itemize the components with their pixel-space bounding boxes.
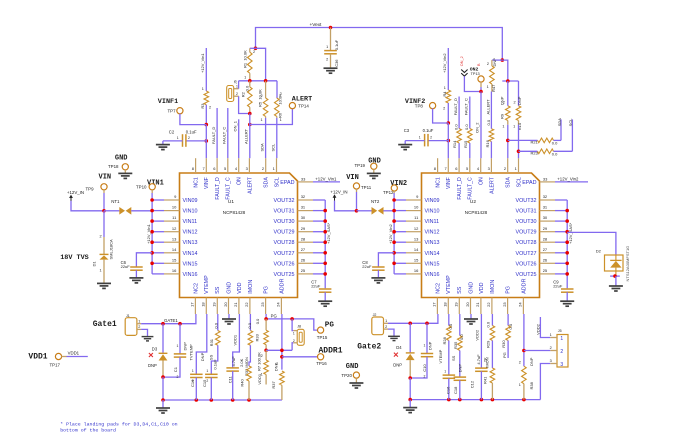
junction J8 tap	[290, 317, 294, 321]
svg-text:R14: R14	[452, 140, 457, 148]
testpoint TP15	[317, 327, 328, 340]
diode D2 pack	[596, 246, 630, 282]
svg-text:J1: J1	[126, 314, 130, 318]
svg-text:2: 2	[385, 325, 387, 329]
svg-text:32: 32	[301, 194, 306, 199]
node VTEMP2 label	[438, 349, 443, 363]
junction R1 bottom	[248, 79, 252, 83]
svg-text:VOUT26: VOUT26	[516, 261, 537, 267]
svg-text:1: 1	[560, 336, 563, 342]
wire FAULT_C2 column	[469, 97, 471, 159]
svg-text:1: 1	[260, 118, 262, 122]
testpoint TP16	[316, 354, 327, 366]
svg-text:22uF: 22uF	[553, 284, 563, 289]
svg-text:R10: R10	[517, 122, 522, 130]
node ON_1 label	[232, 120, 237, 131]
junctions VOUT bus U2	[565, 209, 569, 276]
wire SDA column	[265, 118, 267, 158]
wire NT1 to VIN1 bus	[131, 210, 152, 212]
node FAULT_C label	[222, 127, 227, 144]
junction C2 tap	[205, 139, 209, 143]
ground under C3	[398, 145, 412, 150]
junction node A2	[501, 58, 505, 62]
svg-text:GND: GND	[468, 282, 474, 294]
junction node A	[254, 47, 258, 51]
node VIN label TP9	[86, 174, 112, 192]
ground under J2	[388, 336, 400, 340]
capacitor C16	[443, 370, 456, 400]
svg-text:SDA: SDA	[557, 118, 562, 127]
dnp mark D3	[149, 353, 153, 357]
net-tie NT1	[111, 199, 131, 215]
wire FAULT_D column	[216, 108, 218, 158]
resistor R37	[271, 362, 284, 400]
wire J5 pin2 to ADDR2	[524, 350, 550, 352]
svg-text:NCP81428: NCP81428	[465, 210, 488, 215]
svg-text:27: 27	[301, 247, 306, 252]
svg-text:31: 31	[301, 205, 306, 210]
svg-text:14: 14	[172, 247, 177, 252]
junction R2 bottom	[248, 112, 252, 116]
node Gate1 bold label	[93, 320, 117, 329]
svg-text:VDD1: VDD1	[68, 350, 80, 355]
svg-text:1: 1	[419, 136, 421, 140]
ground under C36	[324, 68, 338, 73]
svg-text:NC1: NC1	[194, 177, 200, 187]
svg-text:R29: R29	[486, 340, 491, 348]
svg-text:0.0: 0.0	[486, 321, 491, 327]
svg-text:29: 29	[301, 226, 306, 231]
svg-text:+12V_SAS*: +12V_SAS*	[568, 222, 573, 244]
junctions VOUT bus U1	[323, 209, 327, 276]
svg-text:0.0: 0.0	[464, 124, 469, 130]
node ADDR1 bold label	[319, 346, 343, 355]
svg-text:VIN09: VIN09	[183, 198, 198, 204]
ground under pin20 U1	[222, 319, 236, 324]
junction TP16 tap	[280, 355, 284, 359]
svg-text:FAULT_C: FAULT_C	[222, 127, 227, 144]
svg-text:0.0: 0.0	[459, 334, 464, 340]
wire J8 pin2 to ADDR	[292, 343, 293, 351]
svg-text:Gate1: Gate1	[93, 320, 117, 329]
svg-text:3: 3	[246, 166, 249, 171]
wire EPAD1 net	[313, 177, 340, 182]
svg-text:PG: PG	[502, 352, 507, 358]
node ALERT bold label	[292, 96, 312, 104]
wire TP9 down	[103, 193, 105, 211]
junction C36 tap	[329, 26, 333, 30]
svg-text:TP7: TP7	[168, 108, 177, 113]
wire J1 pin2 to gnd	[141, 329, 147, 336]
testpoint TP12	[391, 185, 397, 193]
testpoint TP18	[122, 164, 128, 173]
svg-text:GND: GND	[226, 282, 232, 294]
node PG bold label	[325, 321, 335, 329]
wire ALERT to TP14	[250, 109, 293, 125]
svg-text:15: 15	[172, 257, 177, 262]
junction R33 bottom	[264, 349, 268, 353]
wire R6 top jog	[276, 81, 278, 98]
svg-text:1: 1	[444, 86, 446, 90]
ic U2 top pins 1-8	[434, 158, 523, 199]
node ALLERT label	[243, 128, 248, 144]
capacitor C14	[190, 352, 205, 400]
svg-text:NT2: NT2	[371, 199, 380, 204]
node Gate2 bold label	[357, 342, 381, 351]
svg-text:1: 1	[424, 344, 426, 348]
svg-text:+12V_Vin2: +12V_Vin2	[557, 177, 579, 182]
svg-text:1: 1	[206, 369, 208, 373]
svg-text:2: 2	[487, 62, 489, 66]
capacitor C9	[553, 280, 573, 301]
svg-text:0.1uF: 0.1uF	[334, 39, 339, 50]
ic U2 right pins 25-33	[516, 176, 555, 278]
connector J2	[372, 313, 388, 335]
wire J2 pin2 to gnd	[388, 329, 394, 336]
svg-text:VOUT28: VOUT28	[274, 240, 295, 246]
svg-text:VDD1: VDD1	[28, 353, 47, 362]
svg-text:VINF2: VINF2	[405, 98, 425, 106]
svg-text:16: 16	[414, 268, 419, 273]
svg-text:VIN14: VIN14	[183, 251, 198, 257]
wire bottom rail U2	[410, 399, 540, 401]
ground under C7	[318, 301, 332, 306]
svg-text:B: B	[477, 63, 481, 66]
svg-text:0.0: 0.0	[486, 119, 491, 125]
wire SDA2 column	[507, 125, 509, 159]
svg-text:ALERT: ALERT	[292, 96, 312, 104]
svg-text:VIN10: VIN10	[425, 209, 440, 215]
diode D4	[393, 323, 414, 378]
svg-text:TVTEMP: TVTEMP	[189, 344, 194, 361]
svg-text:24: 24	[518, 302, 523, 307]
svg-text:+Vext: +Vext	[310, 22, 323, 27]
junction C10 tap	[425, 322, 429, 326]
junction D4 tap	[408, 322, 412, 326]
node SS label	[208, 354, 213, 360]
node VDD1 bold label	[28, 353, 60, 368]
svg-text:VOUT31: VOUT31	[274, 209, 295, 215]
node VIN1 label TP10	[136, 179, 164, 189]
svg-text:bottom of the board: bottom of the board	[60, 427, 116, 433]
svg-text:C3: C3	[404, 128, 410, 133]
junction PG pin23	[264, 317, 268, 321]
junction C3 tap	[447, 139, 451, 143]
svg-text:16: 16	[172, 268, 177, 273]
svg-text:TP10: TP10	[136, 184, 147, 189]
resistor R32	[244, 314, 253, 376]
svg-text:21: 21	[475, 302, 480, 307]
svg-text:VIN13: VIN13	[183, 240, 198, 246]
resistor R14	[452, 124, 461, 148]
wire FAULT_C column	[227, 108, 229, 158]
svg-text:NT1: NT1	[111, 199, 120, 204]
svg-text:2K: 2K	[482, 357, 487, 362]
node FAULT_D2 label	[453, 98, 458, 115]
svg-text:+12V_Vin2: +12V_Vin2	[388, 224, 393, 244]
wire SCL2 column	[518, 125, 520, 159]
svg-text:C10: C10	[422, 364, 427, 372]
svg-text:2: 2	[99, 235, 101, 239]
testpoint TP14	[289, 103, 309, 109]
svg-text:30: 30	[301, 215, 306, 220]
svg-text:TP11: TP11	[361, 185, 372, 190]
svg-text:R28: R28	[442, 336, 447, 344]
svg-text:0.1uF: 0.1uF	[213, 359, 218, 370]
svg-text:15: 15	[414, 257, 419, 262]
ground under C6	[129, 278, 143, 283]
svg-text:DNP: DNP	[517, 96, 522, 105]
svg-text:VTEMP: VTEMP	[438, 349, 443, 363]
resistor R35	[453, 314, 464, 351]
svg-text:9: 9	[174, 194, 177, 199]
svg-text:VINF: VINF	[204, 177, 210, 189]
resistor R33	[255, 318, 269, 350]
wire bottom rail U1	[163, 399, 282, 401]
svg-text:NC2: NC2	[193, 283, 199, 294]
wire GND pin stub	[228, 314, 230, 319]
svg-text:J5: J5	[558, 329, 562, 333]
wire ADDR rail	[266, 349, 292, 351]
node GND label TP18	[108, 155, 128, 170]
capacitor C11	[226, 356, 239, 400]
svg-text:VOUT26: VOUT26	[274, 261, 295, 267]
power flag +12V_IN mid	[330, 190, 347, 201]
svg-text:11: 11	[172, 215, 177, 220]
resistor R41	[482, 357, 494, 400]
svg-text:DNP: DNP	[529, 357, 534, 366]
svg-text:ON_2: ON_2	[460, 56, 464, 66]
svg-text:20: 20	[465, 302, 470, 307]
capacitor C1	[163, 324, 188, 379]
ground under TP19	[367, 173, 381, 178]
svg-text:VOUT25: VOUT25	[516, 272, 537, 278]
node PG2 label	[502, 352, 507, 358]
svg-text:VDD2: VDD2	[475, 329, 480, 340]
capacitor C2	[163, 129, 206, 146]
svg-text:10: 10	[172, 205, 177, 210]
svg-text:2: 2	[424, 375, 426, 379]
svg-text:DNP: DNP	[492, 58, 497, 67]
svg-text:VIN: VIN	[346, 174, 359, 182]
resistor R4	[442, 86, 451, 123]
svg-text:4.7uF: 4.7uF	[476, 354, 481, 365]
testpoint TP20	[353, 372, 359, 383]
ic U2 bottom pins 17-24	[432, 275, 528, 314]
svg-text:PG: PG	[264, 286, 270, 294]
svg-text:1: 1	[244, 76, 246, 80]
junction TP9 rail	[102, 209, 106, 213]
wire SCL2 stub up	[568, 118, 573, 152]
svg-text:2.0K: 2.0K	[239, 358, 244, 367]
svg-text:* Place landing pads for D3,D4: * Place landing pads for D3,D4,C1,C10 on	[60, 422, 177, 428]
svg-text:1: 1	[202, 87, 204, 91]
svg-text:DNP: DNP	[148, 363, 157, 368]
wire +12V_IN to rail	[71, 201, 104, 211]
svg-text:R33: R33	[255, 333, 260, 341]
svg-text:TP17: TP17	[50, 362, 61, 367]
svg-text:C18: C18	[453, 386, 458, 394]
svg-text:2: 2	[443, 107, 445, 111]
node +12V_Vin2 bus label	[388, 224, 393, 244]
junctions VIN1 bus	[150, 198, 154, 265]
node SS2 label	[451, 355, 456, 361]
power flag +12V_IN left	[67, 190, 84, 201]
svg-text:C2: C2	[169, 129, 175, 134]
svg-text:DNP: DNP	[457, 364, 462, 373]
svg-text:2: 2	[177, 375, 179, 379]
node SCL label	[271, 143, 276, 152]
wire D4 to rail	[409, 378, 411, 400]
wire J5 pin1 VDD2	[536, 317, 551, 338]
svg-text:DNP: DNP	[183, 342, 188, 351]
svg-text:1: 1	[273, 166, 276, 171]
svg-text:VOUT30: VOUT30	[274, 219, 295, 225]
svg-text:VIN16: VIN16	[425, 272, 440, 278]
wire GATE2 rail	[388, 314, 438, 323]
ground under TP20	[349, 383, 363, 388]
ic U1 bottom pins 17-24	[190, 275, 286, 314]
svg-text:VDD1: VDD1	[257, 373, 262, 384]
svg-text:29: 29	[543, 226, 548, 231]
svg-text:SDA: SDA	[264, 177, 270, 188]
svg-text:D1: D1	[91, 261, 96, 267]
svg-text:0.0: 0.0	[245, 85, 250, 91]
wire J8 pin1 to PG	[292, 319, 293, 331]
svg-text:2: 2	[550, 346, 552, 350]
wire VTEMP2 col	[448, 341, 450, 375]
svg-text:8: 8	[192, 166, 195, 171]
svg-text:C12: C12	[470, 380, 475, 388]
svg-text:ON_1: ON_1	[232, 120, 237, 131]
ground under TP18	[118, 173, 132, 178]
svg-text:VOUT29: VOUT29	[516, 230, 537, 236]
svg-text:5: 5	[466, 166, 469, 171]
svg-text:SMLJ18CA: SMLJ18CA	[109, 239, 114, 260]
resistor R3	[200, 87, 211, 125]
junctions VIN2 bus	[392, 198, 396, 265]
svg-text:NC2: NC2	[435, 283, 441, 294]
svg-text:2: 2	[262, 166, 265, 171]
testpoint TP8	[415, 103, 436, 109]
wire FAULT_D2 column	[458, 97, 460, 159]
resistor R29	[486, 314, 495, 348]
svg-text:D3: D3	[152, 346, 158, 351]
wire ALERT2 column	[490, 92, 492, 129]
svg-text:2: 2	[253, 50, 255, 54]
wire SS col	[211, 345, 218, 374]
svg-text:R5 10.0K: R5 10.0K	[258, 89, 263, 107]
node IMON label	[244, 357, 249, 368]
ground bottom rail U1	[156, 400, 170, 413]
svg-text:C1: C1	[173, 366, 178, 372]
ground under C8	[371, 278, 385, 283]
svg-text:VDD: VDD	[237, 282, 243, 293]
wire VIN2 bus	[394, 193, 406, 274]
svg-text:17: 17	[432, 302, 437, 307]
node IMON2 label	[485, 357, 490, 368]
wire VINF to stub	[205, 125, 207, 159]
svg-text:VIN15: VIN15	[183, 261, 198, 267]
svg-text:R47: R47	[491, 84, 496, 92]
svg-text:7: 7	[202, 166, 205, 171]
svg-text:33: 33	[301, 176, 306, 181]
wire GATE1 rail	[141, 314, 196, 324]
wire TP7 to VINF	[180, 114, 206, 125]
svg-text:VIN11: VIN11	[425, 219, 440, 225]
svg-text:VOUT30: VOUT30	[516, 219, 537, 225]
node VDD1 col label	[232, 334, 237, 345]
svg-text:28: 28	[301, 236, 306, 241]
node FAULT_C2 label	[464, 98, 469, 115]
capacitor C8	[362, 253, 394, 278]
svg-text:SS: SS	[208, 354, 213, 360]
ground bottom rail U2	[403, 400, 417, 413]
wire rail to NT2	[357, 210, 372, 212]
svg-text:R40: R40	[239, 378, 244, 386]
wire ADDR col	[281, 314, 283, 370]
jumper J8	[293, 325, 304, 346]
svg-text:VIN14: VIN14	[425, 251, 440, 257]
resistor R7	[256, 350, 268, 384]
wire GND2 pin stub	[470, 314, 472, 319]
svg-text:0.0: 0.0	[255, 318, 260, 324]
svg-text:SCL: SCL	[568, 118, 573, 127]
connector J5	[550, 329, 568, 368]
svg-text:2: 2	[504, 166, 507, 171]
svg-text:5: 5	[224, 166, 227, 171]
svg-text:ADDR1: ADDR1	[319, 346, 343, 355]
svg-text:FAULT_D: FAULT_D	[453, 98, 458, 115]
svg-text:TP18: TP18	[108, 164, 119, 169]
svg-text:19: 19	[212, 302, 217, 307]
wire +12V_IN mid to rail	[335, 201, 357, 211]
node B red label	[477, 63, 481, 66]
wire VOUT bus U1	[313, 200, 325, 288]
jumper J6	[227, 80, 239, 101]
resistor R1	[243, 48, 256, 81]
ic U1 body	[180, 173, 298, 298]
svg-text:6: 6	[213, 166, 216, 171]
svg-text:Gate2: Gate2	[357, 342, 381, 351]
svg-text:J2: J2	[373, 313, 377, 317]
svg-text:13: 13	[172, 236, 177, 241]
resistor R23	[519, 149, 573, 156]
wire IMON2 col	[491, 341, 493, 369]
svg-text:ADDR: ADDR	[521, 278, 527, 293]
resistor R9	[499, 81, 510, 129]
svg-text:17: 17	[190, 302, 195, 307]
ground under J1	[142, 337, 154, 341]
svg-text:NTS12A00MFST1G: NTS12A00MFST1G	[625, 246, 630, 282]
testpoint TP19	[371, 163, 377, 173]
svg-text:10: 10	[414, 205, 419, 210]
svg-text:2: 2	[519, 361, 521, 365]
junction R23 tap	[517, 150, 521, 154]
node ON2 bold label	[470, 67, 480, 76]
svg-text:2: 2	[188, 136, 190, 140]
svg-text:0.0: 0.0	[213, 322, 218, 328]
junction C1 tap	[178, 322, 182, 326]
svg-text:VTEMP: VTEMP	[204, 275, 210, 294]
junction TP8 tap	[447, 121, 451, 125]
wire VINF2 column top	[447, 48, 449, 90]
svg-text:1: 1	[502, 125, 504, 129]
node +Vext label	[310, 22, 323, 27]
svg-text:EPAD: EPAD	[280, 180, 294, 186]
capacitor C17	[453, 364, 466, 400]
svg-text:ON: ON	[237, 177, 243, 185]
